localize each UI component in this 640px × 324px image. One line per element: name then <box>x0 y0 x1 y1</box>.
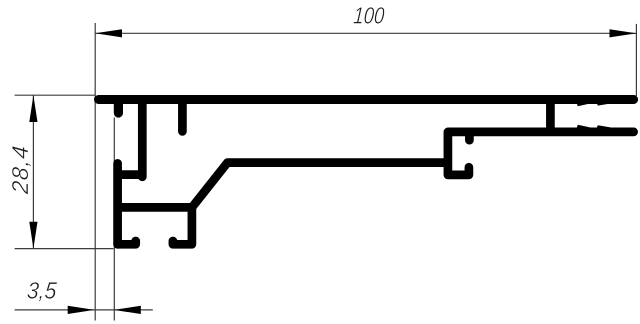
hook left wall, bottom and upturn with lower lip horizontal <box>448 132 634 175</box>
dimension line 3,5 <box>15 309 153 311</box>
profile strokes <box>99 100 634 245</box>
stub 1 under top bar <box>114 101 123 113</box>
bottom right foot with upturn and channel wall <box>173 207 192 244</box>
extension line right (x=636) <box>635 24 637 96</box>
serration tooth upper 1 <box>577 103 595 107</box>
connector horizontal wall-to-web <box>118 170 143 179</box>
dimension line 100 <box>95 32 636 34</box>
serration tooth upper 2 <box>597 103 617 106</box>
extension line middle (x=113.8) for 3,5 <box>113 118 115 321</box>
extension line bottom horizontal for 28,4 <box>15 248 114 250</box>
main web vertical <box>138 101 147 177</box>
left wall vertical <box>113 163 122 244</box>
extension line top horizontal for 28,4 <box>15 94 95 96</box>
svg-text:3,5: 3,5 <box>26 278 58 304</box>
arrow pointing left at x=113.7 for dimension 3,5 <box>114 306 141 314</box>
bottom left foot with upturn <box>118 241 136 244</box>
profile top flange bar <box>99 95 634 104</box>
svg-text:100: 100 <box>353 4 386 29</box>
arrow bottom of dimension 28,4 <box>29 222 37 249</box>
hanging stub inside hook <box>465 133 474 140</box>
vertical connector top bar to lower lip <box>546 101 555 131</box>
arrow left of dimension 100 <box>95 29 122 37</box>
stub 2 under top bar <box>178 101 187 131</box>
arrow pointing right at x=94.5 for dimension 3,5 <box>68 306 95 314</box>
middle shelf, diagonal and upper shelf <box>118 163 448 208</box>
arrow top of dimension 28,4 <box>29 95 37 122</box>
serration tooth lower 1 <box>577 125 595 129</box>
serration tooth lower 2 <box>597 125 617 128</box>
extension line left (x=95) full height <box>94 23 96 321</box>
arrow right of dimension 100 <box>610 29 637 37</box>
dimension line 28,4 <box>32 95 34 248</box>
svg-text:28,4: 28,4 <box>7 144 33 196</box>
